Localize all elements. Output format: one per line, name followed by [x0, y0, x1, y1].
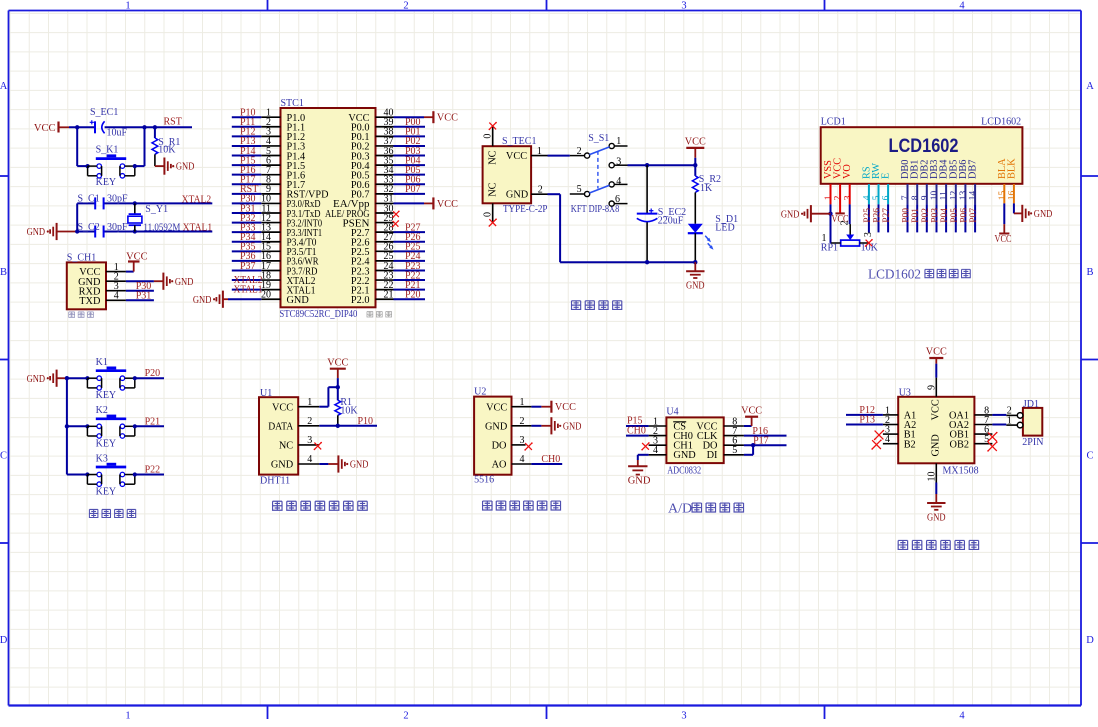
svg-text:P06: P06 [959, 208, 969, 223]
svg-text:4: 4 [653, 445, 658, 456]
wire net P07 [394, 193, 426, 195]
wire net P36 [232, 260, 261, 262]
svg-text:VCC: VCC [926, 347, 947, 358]
svg-text:0: 0 [482, 134, 493, 139]
svg-text:XTAL2: XTAL2 [182, 195, 212, 206]
wire P15 [626, 425, 649, 427]
wire net P03 [394, 155, 426, 157]
STC1 pin 18 XTAL2 [261, 270, 316, 287]
power port VCC (pin31) [433, 197, 458, 210]
svg-text:E: E [881, 173, 892, 179]
crystal S_Y1 11.0592M [128, 203, 181, 233]
wire net P13 [232, 145, 261, 147]
svg-text:10K: 10K [158, 144, 176, 155]
ground (DHT11) [338, 455, 368, 472]
LCD1 pin 4 RS [861, 166, 872, 200]
microcontroller U=STC1 STC89C52RC_DIP40 [279, 98, 375, 320]
lead R1 to DATA [337, 415, 339, 426]
wire net XTAL2 [232, 279, 261, 281]
title 光照检测模块 [483, 501, 561, 510]
svg-text:2: 2 [520, 416, 525, 427]
pin 4 [106, 291, 126, 302]
svg-text:3: 3 [843, 195, 853, 200]
wire switch pin3 to VCC rail [628, 164, 696, 166]
net label P20 [145, 368, 161, 379]
wire LCD pin 11 [945, 184, 947, 232]
wire pin8 to VCC [744, 417, 752, 426]
wire net P14 [232, 155, 261, 157]
STC1 pin 32 P0.7 [351, 184, 394, 201]
svg-text:6: 6 [882, 195, 892, 200]
svg-text:1: 1 [125, 1, 130, 12]
STC1 pin 20 GND [261, 290, 309, 307]
STC1 pin 25 P2.4 [351, 251, 394, 268]
junction [85, 472, 89, 476]
STC1 pin 38 P0.1 [351, 127, 394, 144]
LCD1 pin 10 DB3 [929, 160, 940, 201]
net label P11 [240, 117, 255, 128]
U4 pin 1 [649, 416, 667, 427]
ADC U4 ADC0832 [666, 407, 723, 477]
LCD1 pin 12 DB5 [948, 160, 959, 201]
LCD1 pin 9 DB2 [919, 160, 930, 201]
svg-text:220uF: 220uF [658, 216, 684, 227]
svg-text:P21: P21 [145, 416, 161, 427]
svg-text:S_Y1: S_Y1 [145, 204, 168, 215]
net label XTAL2 [182, 195, 212, 206]
STC1 pin 14 P3.4/T0 [261, 232, 317, 249]
svg-text:GND: GND [175, 277, 194, 288]
svg-text:10uF: 10uF [107, 128, 128, 139]
svg-text:1: 1 [125, 711, 130, 722]
STC1 pin 3 P1.2 [261, 127, 305, 144]
U2 pin 4 [512, 454, 532, 465]
STC1 pin 26 P2.5 [351, 242, 394, 259]
svg-text:3: 3 [681, 711, 686, 722]
wire net P27 [394, 231, 426, 233]
U2 pin 3 [512, 435, 526, 446]
svg-text:4: 4 [307, 454, 312, 465]
net label P21 [145, 416, 161, 427]
switch S_S1 KFT DIP-8X8 [570, 133, 628, 215]
net label P30 [136, 281, 152, 292]
svg-text:K2: K2 [96, 405, 108, 416]
STC1 pin 34 P0.5 [351, 165, 394, 182]
wire pin4 to ground [638, 455, 649, 466]
junction [336, 424, 340, 428]
svg-text:VCC: VCC [327, 357, 348, 368]
svg-text:DO: DO [492, 441, 507, 452]
STC1 pin 1 P1.0 [261, 108, 305, 125]
LCD1 pin 14 DB7 [968, 160, 979, 201]
net label P05 [405, 165, 421, 176]
net label P17 [240, 175, 256, 186]
svg-text:DHT11: DHT11 [260, 475, 290, 486]
svg-text:B: B [0, 267, 7, 278]
power port VCC (ADC) [741, 405, 762, 416]
STC1 pin 7 P1.6 [261, 165, 305, 182]
junction [85, 376, 89, 380]
ground (pin20) [193, 291, 223, 308]
svg-text:NC: NC [279, 441, 293, 452]
svg-text:GND: GND [686, 281, 705, 292]
junction [153, 125, 157, 129]
svg-text:VCC: VCC [685, 137, 706, 148]
svg-text:GND: GND [27, 227, 46, 238]
STC1 pin 13 P3.3/INT1 [261, 222, 322, 239]
svg-text:15: 15 [998, 191, 1008, 201]
net label P34 [240, 232, 256, 243]
wire VCC to S_EC1 [69, 126, 95, 128]
net label P30 [240, 194, 256, 205]
svg-text:GND: GND [193, 295, 212, 306]
wire net P21 [394, 289, 426, 291]
wire LCD pin 4 [868, 184, 870, 232]
svg-text:S_C2: S_C2 [78, 222, 100, 233]
wire VCC to resistor [694, 165, 696, 176]
wire pin2 to ground [531, 425, 551, 427]
STC1 pin 5 P1.4 [261, 146, 305, 163]
svg-text:STC89C52RC_DIP40: STC89C52RC_DIP40 [279, 309, 357, 320]
STC1 pin 2 P1.1 [261, 117, 305, 134]
title 电源电路 [572, 301, 622, 310]
svg-text:XTAL1: XTAL1 [183, 222, 213, 233]
wire pin2 to gnd rail [548, 194, 696, 262]
junction [85, 424, 89, 428]
junction [65, 424, 69, 428]
svg-text:4: 4 [959, 711, 965, 722]
svg-text:2: 2 [403, 1, 408, 12]
net label P25 [863, 208, 873, 223]
net label P14 [240, 146, 256, 157]
wire LCD pin 5 [878, 184, 880, 232]
wire LCD pin 10 [936, 184, 938, 232]
wire net XTAL1 [232, 289, 261, 291]
S_TEC1 pin 1 VCC [531, 146, 547, 157]
wire rail to K3 [67, 474, 88, 476]
svg-text:VCC: VCC [34, 123, 56, 134]
svg-text:B: B [1086, 267, 1093, 278]
ground (download) [163, 273, 193, 290]
S_TEC1 pin 2 GND [531, 184, 547, 195]
wire K3 to P22 [135, 474, 164, 476]
junction [828, 212, 832, 216]
wire AO to CH0 [531, 463, 562, 465]
svg-text:S_EC1: S_EC1 [90, 107, 118, 118]
net label P20 [405, 290, 421, 301]
U3 pin 10 GND [926, 463, 937, 482]
net label P01 [911, 208, 921, 223]
wire S_EC1 to RST node [105, 126, 192, 128]
svg-text:VO: VO [842, 164, 853, 179]
wire net P34 [232, 241, 261, 243]
ground (LCD left) [781, 205, 811, 222]
svg-text:4: 4 [863, 195, 873, 200]
svg-text:STC1: STC1 [281, 98, 304, 109]
svg-text:GND: GND [673, 450, 696, 461]
net label P06 [405, 175, 421, 186]
wire net P10 [232, 116, 261, 118]
junction [86, 164, 90, 168]
net label P15 [240, 155, 256, 166]
svg-text:B2: B2 [904, 439, 916, 450]
wire pin20 to ground [223, 298, 261, 300]
STC1 pin 8 P1.7 [261, 175, 305, 192]
net label P22 [145, 465, 161, 476]
no-connect U3 pin4 [871, 439, 881, 449]
net label P05 [950, 208, 960, 223]
net label P03 [405, 146, 421, 157]
net label P21 [405, 280, 421, 291]
STC1 pin 9 RST/VPD [261, 184, 329, 201]
U4 pin 8 [724, 416, 744, 427]
U3 pin 9 VCC [926, 378, 937, 397]
net label P24 [405, 251, 421, 262]
U1 pin 2 [298, 416, 319, 427]
wire VCC to rail [694, 158, 696, 165]
U3 pin 6 [974, 425, 992, 436]
svg-text:U3: U3 [899, 387, 911, 398]
svg-text:P13: P13 [859, 415, 875, 426]
net label P35 [240, 242, 256, 253]
no-connect pin30 [392, 211, 399, 218]
svg-text:KEY: KEY [96, 390, 117, 401]
STC1 pin 16 P3.6/WR [261, 251, 319, 268]
svg-text:10: 10 [930, 191, 940, 201]
STC1 pin 35 P0.4 [351, 155, 394, 172]
net label P36 [240, 251, 256, 262]
power port VCC (motor) [926, 347, 947, 358]
motor driver U3 MX1508 [898, 387, 978, 476]
svg-text:1K: 1K [700, 183, 713, 194]
wire LCD pin 13 [964, 184, 966, 232]
ground (crystal) [27, 223, 57, 240]
svg-text:10: 10 [926, 472, 937, 482]
STC1 pin 11 P3.1/TxD [261, 203, 321, 220]
sensor U2 5516 [474, 386, 511, 485]
svg-text:13: 13 [959, 191, 969, 201]
svg-text:1: 1 [824, 195, 834, 200]
svg-text:RP1: RP1 [821, 242, 838, 253]
net label XTAL2 [234, 275, 263, 286]
net label P13 [859, 415, 875, 426]
svg-text:VCC: VCC [931, 399, 942, 420]
U4 pin 2 [649, 426, 667, 437]
svg-text:DI: DI [707, 450, 718, 461]
svg-text:VCC: VCC [741, 405, 762, 416]
STC1 pin 31 EA/Vpp [333, 194, 394, 211]
svg-text:CH0: CH0 [541, 454, 560, 465]
svg-text:GND: GND [176, 162, 195, 173]
svg-text:P02: P02 [921, 208, 931, 223]
no-connect U1 pin3 [314, 442, 322, 450]
key K3 [87, 453, 134, 497]
svg-text:P20: P20 [145, 368, 161, 379]
wire net P12 [232, 135, 261, 137]
svg-text:JD1: JD1 [1023, 399, 1039, 410]
svg-text:P07: P07 [405, 184, 421, 195]
net label P10 [240, 108, 256, 119]
resistor S_R2 1K [692, 174, 721, 194]
svg-text:5: 5 [732, 445, 737, 456]
svg-text:A: A [1086, 81, 1094, 92]
junction [133, 472, 137, 476]
svg-text:1: 1 [616, 136, 621, 147]
svg-text:2: 2 [538, 184, 543, 195]
STC1 pin 29 PSEN [343, 213, 394, 230]
svg-text:GND: GND [1034, 209, 1053, 220]
svg-text:VCC: VCC [506, 151, 527, 162]
svg-text:DB7: DB7 [968, 160, 979, 179]
junction [133, 424, 137, 428]
ground (ADC) [628, 466, 651, 486]
svg-text:GND: GND [350, 460, 369, 471]
U4 pin 7 [724, 426, 744, 437]
svg-text:5: 5 [577, 184, 582, 195]
svg-text:0: 0 [482, 212, 493, 217]
svg-text:GND: GND [628, 475, 651, 486]
net label P12 [240, 127, 256, 138]
LCD1 pin 1 VSS [823, 160, 834, 200]
svg-text:4: 4 [959, 1, 965, 12]
LCD1 pin 2 VCC [833, 158, 844, 201]
svg-text:P37: P37 [240, 261, 256, 272]
wire LCD pin 14 [974, 184, 976, 232]
wire pin1 to switch [548, 155, 570, 157]
no-connect U3 pin3 [874, 430, 884, 440]
net label P02 [405, 136, 421, 147]
wire RST node down to resistor [154, 127, 156, 138]
wire LCD pin 9 [926, 184, 928, 232]
U4 pin 4 [649, 445, 667, 456]
wire net P02 [394, 145, 426, 147]
potentiometer RP1 10K [821, 220, 879, 253]
key S_K1 [88, 145, 135, 189]
net label P31 [136, 291, 152, 302]
wire P30 [126, 290, 154, 292]
svg-text:GND: GND [781, 209, 800, 220]
svg-text:2: 2 [577, 146, 582, 157]
svg-text:NC: NC [487, 150, 498, 164]
net label P12 [859, 405, 875, 416]
LCD pin3 stub to potentiometer wiper [849, 184, 852, 235]
lead resistor to ground [155, 154, 165, 166]
wire P31 [126, 299, 154, 301]
STC1 pin 37 P0.2 [351, 136, 394, 153]
STC1 pin 39 P0.0 [351, 117, 394, 134]
junction [751, 443, 755, 447]
svg-text:GND: GND [931, 434, 942, 457]
wire net P04 [394, 164, 426, 166]
wire VCC to junction [337, 378, 339, 400]
svg-text:P2.0: P2.0 [351, 295, 370, 306]
net label P15 [627, 416, 643, 427]
LCD display LCD1 LCD1602 [821, 117, 1023, 184]
wire XTAL1 row [77, 231, 212, 233]
svg-text:CH0: CH0 [627, 426, 646, 437]
svg-text:2: 2 [403, 711, 408, 722]
svg-text:9: 9 [926, 385, 937, 390]
svg-text:14: 14 [969, 191, 979, 201]
ground (motor) [927, 494, 946, 524]
junction [645, 163, 649, 167]
svg-text:A: A [0, 81, 8, 92]
wire DATA to P10 [319, 425, 377, 427]
LCD1 pin 6 E [881, 173, 892, 201]
net label P32 [240, 213, 256, 224]
net label P31 [240, 203, 256, 214]
svg-text:A/D: A/D [668, 502, 692, 517]
wire pin1 to VCC node [319, 387, 338, 407]
svg-text:P05: P05 [950, 208, 960, 223]
no-connect pin29 [392, 220, 399, 227]
no-connect U3 pin6 [987, 432, 997, 442]
wire LCD pin 6 [887, 184, 889, 232]
svg-text:P31: P31 [136, 291, 152, 302]
svg-text:GND: GND [927, 513, 946, 524]
net label P04 [405, 155, 421, 166]
svg-text:U2: U2 [474, 386, 486, 397]
net label XTAL1 [183, 222, 213, 233]
U1 pin 1 [298, 397, 319, 408]
wire pin2 to ground [126, 280, 163, 282]
svg-text:P22: P22 [145, 465, 161, 476]
wire P13 [846, 424, 883, 426]
ground (reset) [164, 158, 194, 175]
net label P01 [405, 127, 421, 138]
svg-text:P26: P26 [873, 208, 883, 223]
wire net RST [232, 193, 261, 195]
wire OA2 to JD1 pin1 [992, 424, 1006, 426]
svg-text:MX1508: MX1508 [943, 466, 979, 477]
wire net P35 [232, 250, 261, 252]
wire net P00 [394, 126, 426, 128]
svg-text:VCC: VCC [126, 252, 148, 263]
U3 pin 4 [883, 434, 898, 445]
LCD1 pin 11 DB4 [939, 160, 950, 201]
svg-text:LCD1: LCD1 [821, 117, 846, 128]
svg-text:2: 2 [307, 416, 312, 427]
svg-text:2: 2 [840, 220, 851, 225]
wire LCD pin 7 [907, 184, 909, 232]
net label P27 [882, 208, 892, 223]
svg-text:VCC: VCC [555, 402, 576, 413]
svg-text:S_CH1: S_CH1 [67, 252, 96, 263]
svg-text:U4: U4 [666, 407, 678, 418]
svg-text:6: 6 [615, 194, 620, 205]
svg-text:TXD: TXD [79, 296, 101, 307]
power port VCC (5516) [551, 401, 576, 414]
power port VCC (reset circuit) [34, 122, 69, 134]
wire P16 [744, 435, 787, 437]
U4 pin 6 [724, 436, 744, 447]
wire pin1 to VCC [531, 406, 551, 408]
svg-text:ADC0832: ADC0832 [667, 465, 701, 476]
net label P17 [753, 435, 769, 446]
svg-text:20: 20 [261, 290, 271, 301]
title A/D转换电路 [668, 502, 744, 517]
wire net P01 [394, 135, 426, 137]
wire rail to K2 [67, 425, 88, 427]
svg-text:9: 9 [920, 195, 930, 200]
svg-text:U1: U1 [260, 388, 272, 399]
svg-text:LCD1602: LCD1602 [868, 266, 921, 281]
net label P25 [405, 242, 421, 253]
ground (supply) [686, 262, 705, 292]
wire pin40 to VCC [394, 116, 434, 118]
svg-text:DATA: DATA [268, 421, 294, 432]
pin 2 [106, 271, 126, 282]
